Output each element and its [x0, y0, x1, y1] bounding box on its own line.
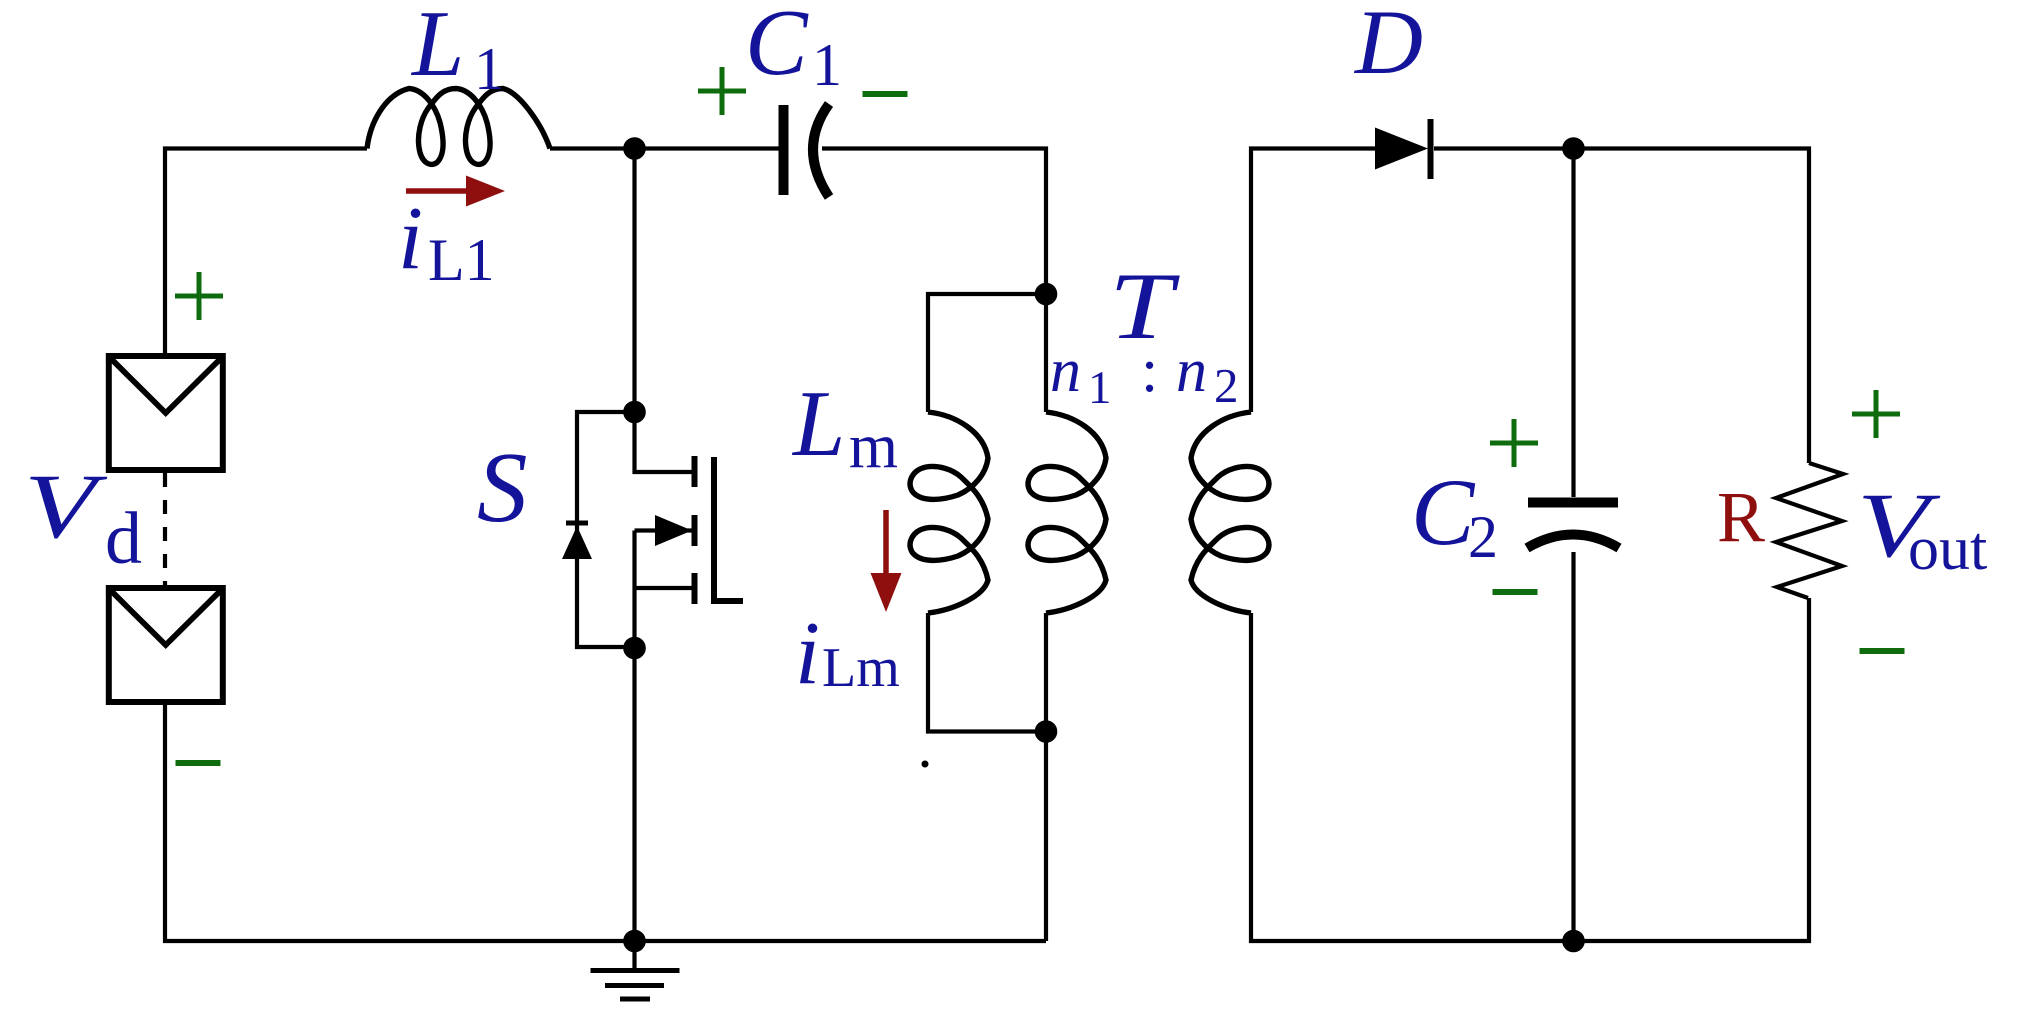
- plus sign at C2: [1490, 419, 1538, 467]
- svg-text:D: D: [1353, 0, 1423, 93]
- transistor S body arrow: [655, 515, 692, 546]
- node: transformer bottom junction dot: [1037, 722, 1055, 740]
- svg-text:1: 1: [1088, 362, 1112, 414]
- svg-text:L: L: [791, 372, 845, 476]
- node A junction dot: [625, 139, 643, 157]
- svg-text:2: 2: [1214, 358, 1239, 413]
- transistor S body-diode symbol: [566, 521, 588, 526]
- node: ground junction dot: [625, 932, 643, 950]
- svg-text:m: m: [849, 411, 898, 481]
- node: C2 bottom junction dot: [1564, 932, 1582, 950]
- minus sign at Vout: [1860, 648, 1905, 654]
- transistor S (MOSFET) wires: [635, 149, 693, 473]
- transistor S channel segments: [692, 456, 698, 604]
- transformer T primary winding: [1028, 412, 1106, 613]
- node: MOSFET source junction dot: [625, 639, 643, 657]
- node: transformer top junction dot: [1037, 285, 1055, 303]
- transistor S body-diode branch wire: [577, 412, 635, 647]
- source Vd dashed link: [163, 473, 167, 585]
- wire: diode to right corner: [1434, 149, 1809, 464]
- svg-text:L1: L1: [428, 227, 495, 293]
- svg-text:1: 1: [474, 36, 504, 102]
- wire: C1 to transformer top: [822, 149, 1046, 295]
- stray dot artifact: [922, 761, 929, 768]
- wire: primary bottom lead: [1044, 613, 1048, 941]
- plus sign at Vd: [175, 272, 223, 320]
- current arrow iL1: [406, 176, 505, 207]
- minus sign at C2: [1493, 589, 1538, 595]
- wire: node A to C1: [635, 146, 780, 150]
- resistor R zigzag: [1776, 463, 1843, 598]
- capacitor C2 curved plate: [1527, 535, 1619, 549]
- diode D triangle: [1375, 128, 1428, 170]
- capacitor C1 curved plate: [813, 104, 829, 197]
- source Vd cell box 1: [109, 356, 223, 470]
- source Vd cell box 2: [109, 588, 223, 702]
- minus sign at Vd: [176, 760, 221, 766]
- svg-text:V: V: [24, 455, 109, 557]
- svg-text:1: 1: [812, 32, 842, 98]
- capacitor C1 flat plate: [779, 105, 789, 195]
- svg-text:R: R: [1717, 477, 1765, 557]
- svg-text:n: n: [1050, 337, 1081, 405]
- svg-text:out: out: [1908, 515, 1987, 583]
- plus sign at C1: [698, 67, 746, 115]
- capacitor C2 flat plate: [1528, 498, 1618, 508]
- wire: secondary top lead: [1251, 149, 1375, 413]
- wire: Lm branch bottom: [928, 613, 1046, 732]
- wire: top-left rail: [165, 149, 367, 354]
- svg-text:d: d: [105, 498, 142, 580]
- wire: Lm branch top: [928, 294, 1046, 412]
- wire: L1 to node A: [550, 146, 635, 150]
- svg-text:C: C: [745, 0, 809, 95]
- wire: primary top lead: [1044, 294, 1048, 412]
- svg-text:2: 2: [1468, 504, 1498, 570]
- svg-text::: :: [1141, 337, 1158, 405]
- minus sign at C1: [863, 91, 908, 97]
- node: MOSFET drain junction dot: [625, 403, 643, 421]
- plus sign at Vout: [1852, 390, 1900, 438]
- inductor L1 coil: [367, 89, 550, 165]
- diode D cathode bar: [1428, 119, 1434, 179]
- svg-text:i: i: [795, 604, 820, 703]
- svg-text:L: L: [410, 0, 464, 96]
- svg-text:S: S: [477, 431, 528, 543]
- current arrow iLm: [871, 510, 902, 612]
- wire: bottom-left rail: [165, 705, 1046, 941]
- svg-text:C: C: [1411, 459, 1476, 565]
- ground symbol: [632, 941, 636, 969]
- transformer T secondary winding: [1191, 412, 1269, 613]
- svg-text:Lm: Lm: [822, 637, 900, 699]
- wire: C2 branch bottom: [1571, 552, 1575, 941]
- inductor Lm winding (magnetizing): [910, 412, 988, 613]
- wire: bottom-right rail: [1251, 598, 1809, 941]
- node: diode-C2 junction dot: [1564, 139, 1582, 157]
- svg-text:n: n: [1176, 337, 1207, 405]
- wire: C2 branch top: [1571, 149, 1575, 498]
- svg-text:i: i: [398, 189, 423, 288]
- transistor S gate bar and lead: [714, 457, 743, 601]
